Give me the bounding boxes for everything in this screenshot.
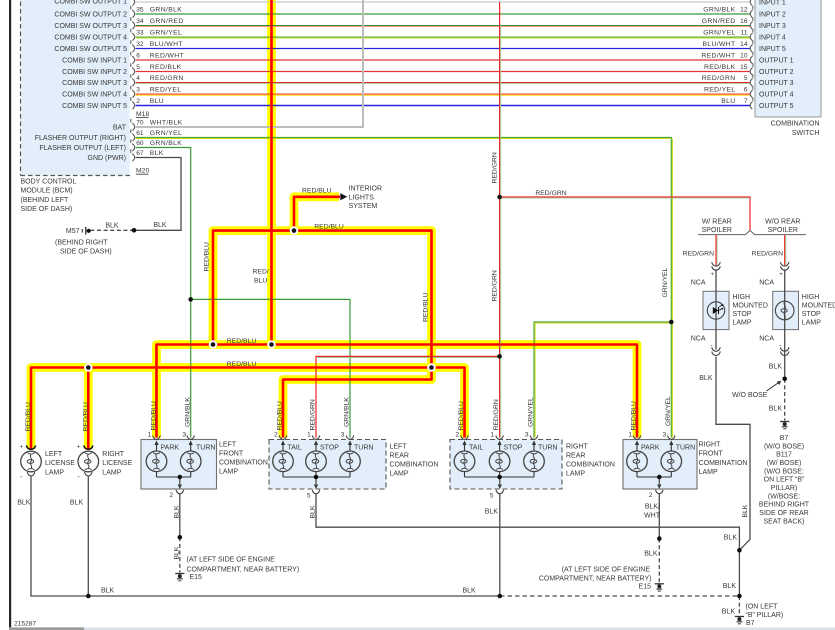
connector pin right rear turn (530, 435, 538, 439)
svg-text:LAMP: LAMP (566, 471, 585, 478)
wire RED/GRN branch to left rear stop (316, 356, 500, 437)
wire RED/BLU core upper loop (213, 231, 432, 368)
svg-text:WHT/BLK: WHT/BLK (150, 120, 183, 127)
svg-text:RED/BLU: RED/BLU (227, 361, 257, 368)
svg-text:6: 6 (136, 53, 140, 60)
svg-text:STOP: STOP (733, 311, 752, 318)
svg-text:GRN/BLK: GRN/BLK (150, 7, 182, 14)
svg-text:RED/BLU: RED/BLU (277, 401, 284, 431)
svg-text:+: + (710, 271, 714, 278)
connector pin right rear stop (496, 435, 504, 439)
wire GRN/BLK branch to left rear turn (191, 299, 350, 437)
svg-text:SWITCH: SWITCH (792, 130, 820, 137)
svg-text:GRN/BLK: GRN/BLK (703, 7, 735, 14)
svg-text:RED/BLU: RED/BLU (631, 401, 638, 431)
svg-text:LEFT: LEFT (390, 443, 408, 450)
svg-text:34: 34 (136, 18, 144, 25)
wire BLK ground bus solid (88, 595, 500, 597)
svg-text:SPOILER: SPOILER (768, 227, 798, 234)
node BLK w/o bose splice (782, 377, 787, 382)
svg-text:STOP: STOP (320, 444, 339, 451)
svg-text:GRN/YEL: GRN/YEL (528, 397, 535, 427)
svg-text:LAMP: LAMP (733, 319, 752, 326)
svg-text:7: 7 (744, 98, 748, 105)
svg-text:NCA: NCA (691, 279, 706, 286)
svg-text:1: 1 (628, 431, 632, 438)
svg-text:BLU: BLU (721, 98, 735, 105)
svg-text:BAT: BAT (113, 124, 127, 131)
node GRN/BLK split (188, 297, 193, 302)
svg-text:RED/BLU: RED/BLU (302, 187, 332, 194)
svg-text:STOP: STOP (802, 311, 821, 318)
wire GRN/YEL pin33-input4 (136, 36, 751, 38)
svg-text:3: 3 (136, 87, 140, 94)
svg-text:COMBI SW OUTPUT 5: COMBI SW OUTPUT 5 (54, 46, 127, 53)
svg-text:(AT LEFT SIDE OF ENGINE: (AT LEFT SIDE OF ENGINE (562, 566, 651, 573)
svg-text:67: 67 (136, 150, 144, 157)
wire row 1 (cut off, WHT) (136, 1, 751, 3)
svg-text:RED/BLK: RED/BLK (704, 64, 736, 71)
combination switch pin brackets (750, 0, 752, 6)
svg-text:M20: M20 (136, 168, 149, 175)
svg-text:5: 5 (307, 493, 311, 500)
wire BLK node to ground bus (738, 550, 740, 596)
svg-text:COMBI SW INPUT 4: COMBI SW INPUT 4 (62, 91, 127, 98)
svg-text:RED/GRN: RED/GRN (535, 190, 566, 197)
wire RED/GRN branch to high mounted stop lamps (500, 197, 750, 230)
svg-text:2: 2 (169, 492, 173, 499)
connector pin right front park (633, 435, 641, 439)
svg-text:RED/GRN: RED/GRN (493, 399, 500, 430)
svg-text:SIDE OF DASH): SIDE OF DASH) (21, 206, 73, 213)
svg-text:LAMP: LAMP (699, 469, 718, 476)
svg-text:RED/GRN: RED/GRN (310, 399, 317, 430)
svg-text:TAIL: TAIL (288, 444, 302, 451)
svg-text:GRN/YEL: GRN/YEL (150, 30, 182, 37)
svg-text:FRONT: FRONT (699, 451, 724, 458)
svg-text:M18: M18 (136, 111, 149, 118)
svg-text:BLK: BLK (17, 500, 31, 507)
svg-text:PILLAR): PILLAR) (771, 485, 797, 492)
svg-text:2: 2 (136, 98, 140, 105)
svg-text:HIGH: HIGH (733, 294, 751, 301)
svg-text:COMBINATION: COMBINATION (219, 460, 268, 467)
svg-text:OUTPUT 2: OUTPUT 2 (759, 69, 794, 76)
svg-text:TURN: TURN (196, 444, 215, 451)
svg-text:COMBI SW OUTPUT 4: COMBI SW OUTPUT 4 (54, 34, 127, 41)
connector pin right rear tail (461, 435, 469, 439)
svg-text:COMBINATION: COMBINATION (699, 460, 748, 467)
svg-text:SIDE OF DASH): SIDE OF DASH) (60, 249, 112, 256)
connector pair stop lamp w/ spoiler top (712, 262, 721, 266)
svg-text:BLK: BLK (722, 608, 736, 615)
svg-text:(W/ BOSE): (W/ BOSE) (767, 460, 802, 467)
svg-text:LAMP: LAMP (390, 471, 409, 478)
svg-text:LIGHTS: LIGHTS (349, 194, 375, 201)
svg-text:BEHIND RIGHT: BEHIND RIGHT (759, 502, 810, 509)
wire BLK right rear pin5 ground (499, 494, 501, 596)
svg-text:RED/WHT: RED/WHT (701, 53, 735, 60)
wire BLU/WHT pin32-input5 (136, 48, 751, 50)
svg-text:W/O BOSE: W/O BOSE (732, 392, 768, 399)
svg-text:2: 2 (649, 492, 653, 499)
svg-text:12: 12 (740, 7, 748, 14)
connector pair stop lamp w/o spoiler bottom (780, 347, 789, 351)
connector right license lamp - (85, 472, 93, 476)
svg-text:6: 6 (744, 87, 748, 94)
svg-text:3: 3 (341, 431, 345, 438)
svg-text:BLK: BLK (724, 534, 738, 541)
wire RED/YEL pin3-output4 (136, 93, 751, 95)
svg-text:TAIL: TAIL (469, 444, 483, 451)
wire GRN/RED pin34-input3 (136, 25, 751, 27)
svg-text:MOUNTED: MOUNTED (802, 302, 835, 309)
svg-text:SEAT BACK): SEAT BACK) (764, 518, 805, 525)
svg-text:RED/BLU: RED/BLU (227, 338, 257, 345)
BCM module panel (21, 0, 130, 176)
svg-text:PARK: PARK (161, 444, 180, 451)
wire RED/BLU run G to license and tail lamps (band) (31, 368, 465, 450)
wire BLK stop lamp w/ spoiler ground (716, 357, 750, 551)
svg-text:5: 5 (490, 493, 494, 500)
wire RED/BLU core interior branch (294, 197, 340, 231)
svg-text:15: 15 (740, 64, 748, 71)
svg-text:GRN/YEL: GRN/YEL (703, 30, 735, 37)
wire RED/GRN drop to stop lamp w/o spoiler (784, 235, 786, 266)
connector pair stop lamp w/ spoiler bottom (712, 347, 721, 351)
svg-text:(W/O BOSE:: (W/O BOSE: (764, 468, 804, 475)
svg-text:COMBI SW OUTPUT 1: COMBI SW OUTPUT 1 (54, 0, 127, 6)
svg-text:INPUT 1: INPUT 1 (759, 0, 786, 6)
svg-text:32: 32 (136, 41, 144, 48)
svg-text:BLU/WHT: BLU/WHT (702, 41, 735, 48)
node run F left (209, 340, 218, 349)
wire BLK dashed to connector M57 (91, 229, 134, 231)
svg-text:E15: E15 (190, 574, 203, 581)
svg-text:RIGHT: RIGHT (699, 442, 722, 449)
svg-text:RED/BLU: RED/BLU (83, 402, 90, 432)
svg-text:GRN/YEL: GRN/YEL (662, 267, 669, 297)
svg-text:COMBINATION: COMBINATION (390, 462, 439, 469)
node BLK bus right junction (737, 594, 742, 599)
svg-text:LAMP: LAMP (45, 470, 64, 477)
svg-text:BLK: BLK (699, 375, 713, 382)
svg-text:BODY CONTROL: BODY CONTROL (21, 179, 77, 186)
node run G main junction (427, 363, 436, 372)
wire BLK gnd(pwr) pin67 to M57 (134, 158, 181, 231)
svg-text:REAR: REAR (390, 453, 409, 460)
svg-text:RED/YEL: RED/YEL (704, 87, 736, 94)
svg-text:5: 5 (136, 64, 140, 71)
svg-text:5: 5 (744, 75, 748, 82)
wire RED/BLU highlighted upper loop run B (band) (213, 231, 432, 368)
svg-text:GRN/BLK: GRN/BLK (150, 140, 182, 147)
svg-text:HIGH: HIGH (802, 294, 820, 301)
svg-text:BLK: BLK (173, 546, 180, 559)
lamp box LEFT REAR COMBINATION LAMP (269, 440, 386, 490)
svg-text:(W/O BOSE): (W/O BOSE) (764, 443, 804, 450)
svg-text:M57: M57 (66, 228, 80, 235)
svg-text:14: 14 (740, 41, 748, 48)
svg-text:GND (PWR): GND (PWR) (88, 155, 127, 162)
svg-text:RED/WHT: RED/WHT (150, 53, 184, 60)
node BLK license bus junction (86, 594, 91, 599)
svg-text:(ON LEFT: (ON LEFT (746, 603, 779, 610)
svg-text:INPUT 2: INPUT 2 (759, 11, 786, 18)
connector M57 (81, 229, 83, 233)
svg-text:OUTPUT 5: OUTPUT 5 (759, 103, 794, 110)
connector right license lamp + (84, 445, 93, 449)
svg-text:3: 3 (663, 431, 667, 438)
svg-text:+: + (779, 271, 783, 278)
wire BLK stop lamp w/o spoiler lower stub (784, 350, 786, 357)
wire RED/BLU core run G (31, 368, 465, 450)
connector exit left rear pin5 (312, 490, 320, 494)
svg-text:B7: B7 (746, 620, 755, 627)
wire RED/BLU core trunk (270, 0, 273, 345)
lamp LEFT FRONT bulbs PARK/TURN (146, 451, 167, 472)
svg-text:(W/BOSE:: (W/BOSE: (768, 493, 800, 500)
svg-text:10: 10 (740, 53, 748, 60)
svg-text:LAMP: LAMP (102, 470, 121, 477)
svg-text:11: 11 (741, 30, 748, 37)
lamp HIGH MOUNTED STOP bulb (w/o spoiler) (775, 301, 794, 320)
connector left license lamp - (27, 472, 35, 476)
svg-text:BLK: BLK (153, 222, 167, 229)
wire BLK dashed to B7/B117 ground (784, 379, 786, 421)
lamp LEFT LICENSE LAMP bulb (21, 451, 42, 472)
node BLK rear ground junction (737, 548, 742, 553)
lamp box RIGHT FRONT COMBINATION LAMP (623, 440, 697, 490)
svg-text:BLK: BLK (769, 405, 783, 412)
svg-text:INPUT 4: INPUT 4 (759, 34, 786, 41)
svg-text:+: + (77, 443, 81, 450)
svg-text:BLK: BLK (723, 583, 737, 590)
svg-text:W/O REAR: W/O REAR (765, 218, 800, 225)
svg-text:COMBINATION: COMBINATION (566, 462, 615, 469)
svg-text:SIDE OF REAR: SIDE OF REAR (759, 510, 808, 517)
node BLK right front ground splice (657, 536, 662, 541)
connector pin left rear turn (346, 435, 354, 439)
svg-text:COMBI SW INPUT 1: COMBI SW INPUT 1 (62, 57, 127, 64)
node RED/GRN left rear stop tap (497, 354, 502, 359)
svg-text:RED/BLU: RED/BLU (203, 242, 210, 272)
svg-text:GRN/YEL: GRN/YEL (150, 130, 182, 137)
svg-text:MOUNTED: MOUNTED (733, 302, 768, 309)
wire RED/BLK pin5-output2 (136, 71, 751, 73)
svg-text:RED/GRN: RED/GRN (491, 152, 498, 183)
wire RED/GRN stop trunk vertical (499, 2, 501, 438)
lamp box LEFT FRONT COMBINATION LAMP (141, 440, 217, 490)
svg-text:COMPARTMENT, NEAR BATTERY): COMPARTMENT, NEAR BATTERY) (539, 575, 652, 582)
svg-text:RED/BLU: RED/BLU (314, 224, 344, 231)
svg-text:BLK: BLK (463, 587, 477, 594)
connector left license lamp + (26, 445, 35, 449)
wire BLK left front lamp ground (179, 494, 181, 537)
svg-text:1: 1 (491, 431, 495, 438)
svg-text:REAR: REAR (566, 453, 585, 460)
svg-text:GRN/RED: GRN/RED (150, 18, 184, 25)
wire RED/BLU run F to park lamps (band) (157, 345, 638, 438)
wire BLK right license lamp ground (87, 476, 89, 596)
svg-text:1: 1 (307, 431, 311, 438)
lamp box HIGH MOUNTED STOP LAMP (w/o rear spoiler) (773, 291, 799, 329)
svg-text:LAMP: LAMP (802, 319, 821, 326)
connector exit right front pin2 (656, 490, 664, 494)
svg-text:RED/BLU: RED/BLU (25, 402, 32, 432)
wire GRN/BLK pin35-input2 (136, 13, 751, 15)
svg-text:GRN/YEL: GRN/YEL (665, 396, 672, 426)
svg-text:NCA: NCA (691, 335, 706, 342)
svg-text:BLK: BLK (769, 363, 783, 370)
svg-text:COMBI SW OUTPUT 3: COMBI SW OUTPUT 3 (54, 23, 127, 30)
svg-text:NCA: NCA (759, 335, 774, 342)
wire GRN/YEL flasher right trunk (136, 138, 672, 438)
svg-text:61: 61 (136, 130, 144, 137)
svg-text:RED/GRN: RED/GRN (683, 251, 714, 258)
connector pin left rear stop (312, 435, 320, 439)
wire RED/BLU run H to left rear tail (band) (283, 368, 432, 438)
svg-text:RED/BLU: RED/BLU (150, 401, 157, 431)
svg-text:BLU/WHT: BLU/WHT (150, 41, 183, 48)
wire RED/BLU core run F (157, 345, 638, 438)
svg-text:(BEHIND LEFT: (BEHIND LEFT (21, 197, 70, 204)
svg-text:RIGHT: RIGHT (102, 451, 125, 458)
wire GRN/YEL branch to right rear turn (534, 322, 671, 438)
svg-text:BLK: BLK (310, 505, 317, 518)
svg-text:LEFT: LEFT (45, 451, 63, 458)
svg-text:ON LEFT “B”: ON LEFT “B” (764, 477, 805, 484)
ground E15 left (175, 573, 184, 575)
wire BLK/WHT right front lamp ground (658, 494, 660, 539)
svg-text:FLASHER OUTPUT (LEFT): FLASHER OUTPUT (LEFT) (39, 145, 126, 152)
svg-text:BLU: BLU (150, 98, 164, 105)
node run G license tap (84, 363, 93, 372)
ground B7 bottom (735, 616, 744, 618)
svg-text:B117: B117 (776, 452, 792, 459)
wire GRN/BLK flasher left trunk (136, 148, 191, 438)
wire RED/GRN drop to stop lamp w/ spoiler (715, 235, 717, 266)
svg-text:16: 16 (740, 18, 748, 25)
node BLK bus mid junction (498, 594, 503, 599)
svg-text:INPUT 5: INPUT 5 (759, 46, 786, 53)
svg-text:COMBINATION: COMBINATION (771, 121, 820, 128)
wire RED/BLU core run H (283, 368, 432, 438)
svg-text:35: 35 (136, 7, 144, 14)
svg-text:BLU: BLU (254, 278, 267, 285)
svg-text:2: 2 (274, 431, 278, 438)
svg-text:LAMP: LAMP (219, 469, 238, 476)
svg-text:LICENSE: LICENSE (102, 460, 132, 467)
svg-text:COMBI SW INPUT 5: COMBI SW INPUT 5 (62, 103, 127, 110)
svg-text:INPUT 3: INPUT 3 (759, 23, 786, 30)
BCM connector pin brackets (132, 0, 134, 6)
wire BLK left rear pin5 ground run (316, 494, 739, 550)
svg-text:RED/YEL: RED/YEL (150, 87, 182, 94)
svg-text:RED/GRN: RED/GRN (752, 251, 783, 258)
wire BLK left license lamp ground (31, 476, 88, 596)
svg-text:LICENSE: LICENSE (45, 460, 75, 467)
svg-text:BLK/: BLK/ (645, 503, 660, 510)
svg-text:STOP: STOP (504, 444, 523, 451)
svg-text:OUTPUT 1: OUTPUT 1 (759, 57, 794, 64)
svg-text:GRN/BLK: GRN/BLK (344, 397, 351, 427)
svg-text:RED/GRN: RED/GRN (491, 270, 498, 301)
svg-text:3: 3 (182, 431, 186, 438)
svg-text:PARK: PARK (641, 444, 660, 451)
svg-text:COMBI SW INPUT 3: COMBI SW INPUT 3 (62, 80, 127, 87)
connector pin left rear tail (279, 435, 287, 439)
svg-text:70: 70 (136, 120, 144, 127)
svg-text:1: 1 (148, 431, 152, 438)
svg-text:GRN/RED: GRN/RED (702, 18, 736, 25)
svg-text:FLASHER OUTPUT (RIGHT): FLASHER OUTPUT (RIGHT) (35, 135, 126, 142)
lamp box RIGHT REAR COMBINATION LAMP (450, 440, 562, 490)
wire BLK dashed to E15 right (658, 539, 660, 583)
svg-text:RED/GRN: RED/GRN (702, 75, 736, 82)
svg-text:COMBI SW OUTPUT 2: COMBI SW OUTPUT 2 (54, 11, 127, 18)
svg-text:(BEHIND RIGHT: (BEHIND RIGHT (55, 239, 108, 246)
svg-text:FRONT: FRONT (219, 451, 244, 458)
svg-text:TURN: TURN (538, 444, 557, 451)
svg-text:BLK: BLK (105, 223, 119, 230)
node BLK M57 splice (132, 228, 137, 233)
frame left border line (9, 0, 11, 627)
svg-text:BLK: BLK (485, 508, 499, 515)
wire BLK stop lamp w/ spoiler upper (715, 269, 717, 349)
svg-text:WHT: WHT (644, 512, 661, 519)
wire BLK ground bus dashed (500, 595, 739, 597)
wire RED/BLU highlighted trunk vertical (band) (267, 0, 276, 345)
svg-text:COMBI SW INPUT 2: COMBI SW INPUT 2 (62, 69, 127, 76)
bottom scrollbar (9, 627, 835, 630)
connector pin left front turn (187, 435, 195, 439)
svg-text:BLK: BLK (742, 504, 749, 517)
wire RED/BLU interior lights branch (band) (294, 197, 339, 231)
lamp LEFT REAR bulbs TAIL/STOP/TURN (273, 451, 294, 472)
node interior lights tap (290, 226, 299, 235)
wire RED/GRN spoiler split bracket (698, 231, 806, 235)
svg-text:215287: 215287 (14, 620, 36, 627)
node RED/GRN stop lamp tap (497, 195, 502, 200)
svg-text:BLK: BLK (101, 587, 115, 594)
connector pin right front turn (668, 435, 676, 439)
svg-text:SPOILER: SPOILER (702, 227, 732, 234)
wire RED/BLU right license drop (band) (84, 368, 93, 450)
connector exit left front pin2 (176, 490, 184, 494)
svg-text:B7: B7 (780, 435, 789, 442)
svg-text:TURN: TURN (354, 444, 373, 451)
svg-text:MODULE (BCM): MODULE (BCM) (21, 188, 73, 195)
svg-text:3: 3 (525, 431, 529, 438)
svg-text:BLK: BLK (644, 551, 658, 558)
wire BLK dashed to B7 ground (738, 596, 740, 616)
wire RED/BLU core right license drop (87, 368, 90, 450)
connector pin left front park (153, 435, 161, 439)
lamp RIGHT LICENSE LAMP bulb (78, 451, 99, 472)
svg-text:RED/BLU: RED/BLU (423, 292, 430, 322)
svg-text:OUTPUT 4: OUTPUT 4 (759, 91, 794, 98)
arrow w/o bose pointer (767, 382, 780, 391)
svg-text:BLK: BLK (174, 505, 181, 518)
node GRN/YEL split (669, 320, 674, 325)
svg-text:SYSTEM: SYSTEM (349, 203, 378, 210)
svg-text:BLK: BLK (70, 500, 84, 507)
wire RED/WHT pin6-output1 (136, 59, 751, 61)
svg-text:LEFT: LEFT (219, 441, 237, 448)
svg-text:OUTPUT 3: OUTPUT 3 (759, 80, 794, 87)
svg-text:TURN: TURN (676, 444, 695, 451)
